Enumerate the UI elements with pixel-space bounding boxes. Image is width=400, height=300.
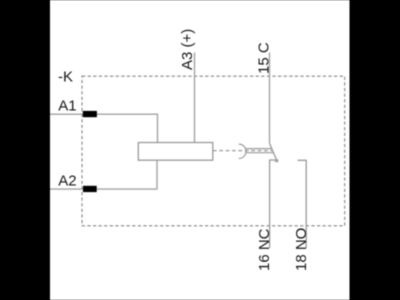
contact blade	[270, 143, 278, 162]
wire 15 common	[269, 53, 271, 144]
NC contact 16	[270, 160, 279, 248]
wire A1 to coil	[50, 114, 158, 143]
svg-text:A1: A1	[58, 97, 76, 114]
mechanical link dashed	[213, 150, 273, 152]
svg-text:A3 (+): A3 (+)	[179, 29, 196, 70]
svg-text:A2: A2	[58, 173, 76, 190]
coil U1	[138, 143, 213, 161]
dashed enclosure box	[82, 76, 345, 226]
actuator lower bar	[246, 152, 273, 154]
svg-text:-K: -K	[58, 69, 73, 86]
wire A3 to coil	[194, 53, 196, 143]
white drawing panel	[50, 0, 350, 300]
svg-text:16 NC: 16 NC	[256, 228, 273, 271]
blade tip tick	[275, 160, 279, 162]
actuator arc	[239, 144, 246, 158]
svg-text:18 NO: 18 NO	[293, 228, 310, 271]
wire A2 to coil	[50, 160, 157, 189]
terminal pad A1	[83, 111, 97, 117]
NO contact 18	[298, 160, 307, 248]
actuator upper bar	[246, 148, 272, 150]
terminal pad A2	[83, 186, 97, 192]
